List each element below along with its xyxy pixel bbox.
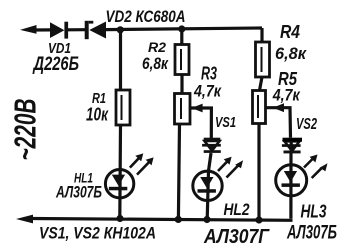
svg-text:АЛ307Б: АЛ307Б [286,223,337,244]
svg-text:~220В: ~220В [8,99,43,161]
svg-text:10к: 10к [86,105,109,125]
svg-text:R2: R2 [148,40,167,55]
svg-text:4,7к: 4,7к [272,86,301,105]
svg-text:VS2: VS2 [296,116,317,133]
svg-text:АЛ307Г: АЛ307Г [203,226,270,248]
svg-text:R4: R4 [280,22,300,42]
svg-text:HL3: HL3 [301,202,327,222]
svg-text:Д226Б: Д226Б [32,54,79,75]
svg-text:VS1, VS2 КН102А: VS1, VS2 КН102А [39,224,156,243]
svg-text:VS1: VS1 [215,114,236,131]
svg-text:4,7к: 4,7к [193,82,222,101]
svg-text:6,8к: 6,8к [142,55,169,73]
svg-text:VD2 КС680А: VD2 КС680А [106,7,186,26]
svg-text:6,8к: 6,8к [275,44,307,63]
svg-text:R3: R3 [201,64,217,84]
svg-text:АЛ307Б: АЛ307Б [55,182,102,201]
svg-text:HL2: HL2 [224,200,250,219]
